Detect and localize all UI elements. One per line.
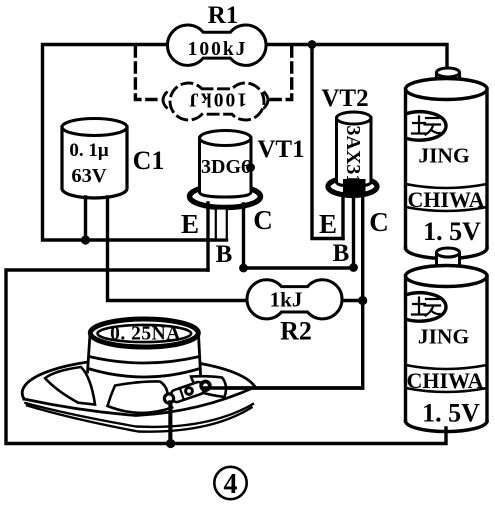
- label VT1 pin E: [181, 209, 199, 239]
- svg-text:C: C: [253, 205, 273, 235]
- svg-text:JING: JING: [418, 325, 470, 349]
- svg-text:R2: R2: [280, 317, 312, 346]
- wire: dashed left lead of alternate resistor: [135, 47, 157, 100]
- label B1 1.5V: [423, 217, 481, 246]
- speaker LS1 basket rim: [22, 358, 255, 431]
- label C1 value 0.1u: [69, 140, 109, 161]
- label VT2 pin B: [333, 240, 350, 267]
- wire: VT1 collector lead: [242, 204, 245, 268]
- svg-text:C: C: [369, 207, 389, 237]
- speaker LS1 magnet: [88, 319, 201, 377]
- svg-text:E: E: [319, 209, 337, 239]
- label VT1 pin B: [216, 241, 233, 268]
- svg-text:E: E: [181, 209, 199, 239]
- label VT2 pin C: [369, 207, 389, 237]
- svg-text:100kJ: 100kJ: [188, 39, 248, 60]
- node: junction dot R2 right end: [358, 296, 367, 305]
- node: junction dot speaker lead on bottom bus: [166, 439, 175, 448]
- transistor VT1 body 3DG6: [190, 131, 261, 208]
- label VT1 pin C: [253, 205, 273, 235]
- capacitor C1 body: [62, 119, 127, 198]
- battery B1 body: [406, 68, 488, 259]
- svg-text:CHIWA: CHIWA: [406, 368, 483, 393]
- label R2: [280, 317, 312, 346]
- label C1 value 63V: [71, 165, 107, 187]
- svg-text:1. 5V: 1. 5V: [423, 217, 481, 246]
- svg-text:0. 25NA: 0. 25NA: [110, 324, 181, 345]
- speaker LS1 frame cutout right: [191, 376, 226, 397]
- label B2 JING: [418, 325, 470, 349]
- svg-text:JING: JING: [418, 144, 470, 168]
- speaker LS1 terminal block: [164, 381, 209, 403]
- svg-text:1kJ: 1kJ: [270, 288, 303, 312]
- wire: speaker terminal to VT2 collector (overdraw): [205, 386, 363, 389]
- wire: C1 right lead down and right to R2 left end: [108, 197, 248, 301]
- wire: R1 right lead to battery positive terminal: [266, 45, 447, 70]
- pin: VT1 base wide pin: [216, 209, 227, 240]
- label 3AX31 vertical: [342, 126, 364, 185]
- battery B2 body: [406, 266, 488, 432]
- wire: VT2 emitter lead: [341, 196, 344, 239]
- svg-text:63V: 63V: [71, 165, 107, 187]
- svg-text:B: B: [216, 241, 233, 268]
- wire: R2 right lead: [342, 299, 363, 302]
- speaker LS1 frame cutout left: [45, 367, 95, 405]
- resistor (dashed alternate position) 100kJ: [170, 83, 264, 120]
- wire: VT2 collector lead down through R2 node to speaker: [205, 196, 363, 388]
- label B2 CHIWA band: [406, 365, 488, 393]
- label B2 seal badge: [407, 293, 446, 321]
- svg-text:4: 4: [224, 469, 238, 500]
- label B1 JING: [418, 144, 470, 168]
- node: junction dot VT2 base: [349, 263, 358, 272]
- wire: R1 left lead, left vertical bus, and horizontal to VT1 base: [43, 45, 227, 241]
- label VT1: [257, 136, 304, 163]
- label VT2: [321, 85, 368, 112]
- resistor R2 body 1kJ: [247, 280, 342, 319]
- svg-text:1. 5V: 1. 5V: [422, 399, 480, 428]
- svg-text:R1: R1: [208, 2, 239, 29]
- wire: VT1 emitter to left ground loop, bottom bus to battery negative: [6, 270, 446, 444]
- transistor VT2 body 3AX31: [328, 112, 377, 196]
- svg-text:C1: C1: [133, 146, 165, 175]
- label VT2 pin E: [319, 209, 337, 239]
- svg-text:3DG6: 3DG6: [201, 156, 251, 178]
- label B1 CHIWA band: [406, 184, 488, 212]
- svg-text:VT2: VT2: [321, 85, 368, 112]
- label C1: [133, 146, 165, 175]
- speaker LS1 frame cutout middle: [108, 381, 173, 412]
- wire: from top junction down to VT2 emitter: [312, 45, 343, 239]
- node: junction dot on top wire feeding VT2 emitter branch: [308, 40, 317, 49]
- wire: VT1 collector to VT2 base: [244, 266, 354, 269]
- svg-text:B: B: [333, 240, 350, 267]
- wire: dashed right lead of alternate resistor: [270, 47, 292, 100]
- wire: C1 left lead: [84, 197, 87, 240]
- label R1: [208, 2, 239, 29]
- svg-text:100kJ: 100kJ: [187, 89, 247, 110]
- label figure number 4: [214, 467, 246, 500]
- node: junction dot VT1 collector: [239, 264, 248, 273]
- battery B1-B2 interconnect cap: [437, 248, 460, 268]
- wire: VT2 base lead: [352, 194, 355, 268]
- svg-text:CHIWA: CHIWA: [407, 187, 484, 212]
- label B1 seal badge: [407, 112, 446, 140]
- resistor R1 body 100kJ: [167, 25, 266, 65]
- wire: VT1 emitter lead: [206, 203, 209, 270]
- label 3DG6: [201, 156, 251, 178]
- wire: speaker terminal down to bottom bus (overdraw): [168, 402, 171, 444]
- svg-text:VT1: VT1: [257, 136, 304, 163]
- label B2 1.5V: [422, 399, 480, 428]
- node: junction dot C1 left lead on base wire: [81, 235, 90, 244]
- label speaker 0.25NA: [110, 324, 181, 345]
- svg-text:3AX31: 3AX31: [342, 126, 364, 185]
- svg-text:0. 1μ: 0. 1μ: [69, 140, 109, 161]
- wire: speaker terminal down to bottom bus: [169, 404, 172, 444]
